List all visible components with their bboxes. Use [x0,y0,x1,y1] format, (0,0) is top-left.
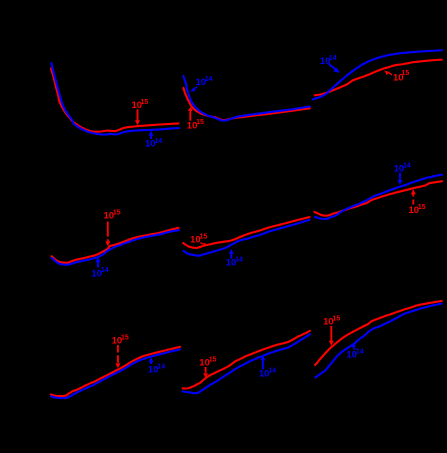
panel 2 segment A red label 10^15 dashed arrow [104,210,121,247]
panel 2 red curve segment A [52,228,179,263]
panel 1 segment C blue label 10^14 [320,55,340,73]
panel 3 segment B red label 10^15 [199,357,216,378]
panel 1 blue curve segment B [184,76,310,121]
svg-text:14: 14 [403,163,411,170]
panel 1 segment B red label 10^15 [187,107,204,131]
panel 3 segment B blue label 10^14 [259,355,276,379]
panel 1 red curve segment A [51,68,178,131]
panel 1 red curve segment B [183,88,309,120]
panel 3 segment A red label 10^15 dashed arrow [112,335,129,369]
panel 3 blue curve segment C [315,304,441,378]
svg-text:14: 14 [155,138,163,145]
svg-text:14: 14 [235,257,243,264]
svg-text:15: 15 [121,335,129,342]
svg-text:14: 14 [205,76,213,83]
svg-text:14: 14 [356,349,364,356]
panel 3 red curve segment C [315,301,442,365]
svg-text:15: 15 [113,210,121,217]
panel 2 segment A blue label 10^14 [91,257,108,279]
svg-text:15: 15 [418,204,426,211]
panel 2 segment C red label 10^15 dashed arrow [409,189,426,216]
panel 3 red curve segment B [183,331,310,389]
svg-text:14: 14 [268,368,276,375]
panel 1 segment C red label 10^15 [384,70,409,84]
panel 2 red curve segment B [183,217,309,248]
panel 3 segment C blue label 10^14 [346,345,363,361]
panel 2 blue curve segment A [52,230,179,265]
svg-text:14: 14 [329,55,337,62]
panel 3 segment A blue label 10^14 [148,357,165,375]
svg-text:14: 14 [157,364,165,371]
svg-text:15: 15 [196,119,204,126]
panel 3 red curve segment A [51,347,180,396]
panel 1 segment B blue label 10^14 [191,76,213,92]
svg-text:15: 15 [402,70,410,77]
panel 2 blue curve segment B [184,220,310,256]
panel 2 segment B blue label 10^14 [226,249,243,269]
panel 1 segment A blue label 10^14 [145,131,162,150]
panel 2 red curve segment C [315,181,443,216]
panel 2 segment C blue label 10^14 [394,163,411,185]
panel 3 blue curve segment A [51,349,180,398]
panel 1 red curve segment C [315,60,442,96]
panel 3 segment C red label 10^15 dashed arrow [323,316,340,346]
panel 2 blue curve segment C [315,175,442,219]
svg-text:15: 15 [209,357,217,364]
panel 2 segment B red label 10^15 [190,234,208,247]
svg-text:15: 15 [333,316,341,323]
panel 1 blue curve segment C [313,50,443,99]
panel 3 blue curve segment B [183,334,310,393]
svg-text:15: 15 [141,99,149,106]
svg-text:15: 15 [200,234,208,241]
panel 1 segment A red label 10^15 [132,99,149,125]
svg-text:14: 14 [101,267,109,274]
panel 1 blue curve segment A [51,63,179,135]
